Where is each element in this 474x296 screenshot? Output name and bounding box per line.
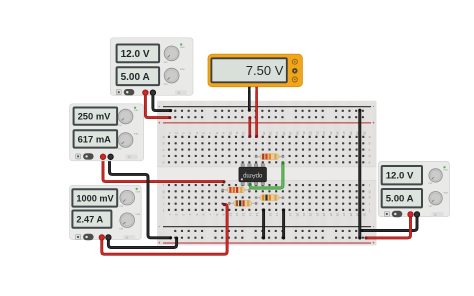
wire PS3 black to bottom rail row2 bbox=[108, 236, 178, 247]
wire PS2 black to bottom rail row2 bbox=[110, 157, 173, 239]
svg-text:12.0 V: 12.0 V bbox=[386, 171, 414, 182]
multimeter M1 (7.50 V) bbox=[208, 54, 302, 86]
power supply PS2 (250 mV 617 mA) bbox=[70, 104, 144, 161]
svg-text:15: 15 bbox=[262, 131, 266, 135]
svg-text:16: 16 bbox=[269, 213, 273, 217]
column labels bbox=[168, 131, 366, 216]
bottom positive rail line bbox=[163, 242, 371, 243]
svg-text:26: 26 bbox=[336, 131, 340, 135]
svg-text:10: 10 bbox=[228, 213, 232, 217]
svg-text:26: 26 bbox=[336, 213, 340, 217]
svg-text:max: max bbox=[443, 169, 448, 172]
breadboard bbox=[157, 101, 377, 246]
svg-text:27: 27 bbox=[342, 213, 346, 217]
wire black jumper top rail to bottom rail bbox=[358, 109, 361, 240]
svg-text:23: 23 bbox=[315, 131, 319, 135]
svg-text:min: min bbox=[164, 61, 169, 64]
svg-text:opAmp: opAmp bbox=[242, 172, 262, 179]
wire PS4 black to bottom rail row1 bbox=[360, 215, 417, 233]
svg-text:12: 12 bbox=[242, 213, 246, 217]
svg-text:j: j bbox=[162, 208, 164, 212]
svg-text:h: h bbox=[369, 196, 371, 200]
svg-text:a: a bbox=[163, 135, 165, 139]
svg-text:21: 21 bbox=[302, 213, 306, 217]
svg-text:17: 17 bbox=[275, 213, 279, 217]
terminal PS3 (1000 mV 2.47 A) negative bbox=[106, 235, 111, 240]
svg-text:max: max bbox=[134, 133, 139, 136]
svg-text:22: 22 bbox=[309, 131, 313, 135]
svg-text:13: 13 bbox=[248, 213, 252, 217]
svg-text:max: max bbox=[443, 192, 448, 195]
svg-text:19: 19 bbox=[289, 131, 293, 135]
terminal PS2 (250 mV 617 mA) positive bbox=[100, 154, 105, 159]
svg-text:25: 25 bbox=[329, 131, 333, 135]
wire multimeter red probe to a14 bbox=[255, 91, 258, 138]
svg-text:19: 19 bbox=[289, 213, 293, 217]
svg-text:g: g bbox=[369, 190, 371, 194]
svg-text:f: f bbox=[369, 183, 370, 187]
terminal PS1 (12.0 V 5.00 A) positive bbox=[143, 90, 148, 95]
svg-text:30: 30 bbox=[362, 131, 366, 135]
bottom negative rail line bbox=[163, 226, 371, 227]
svg-text:d: d bbox=[163, 154, 165, 158]
terminal PS3 (1000 mV 2.47 A) positive bbox=[99, 235, 104, 240]
svg-text:d: d bbox=[369, 154, 371, 158]
svg-text:30: 30 bbox=[362, 213, 366, 217]
wire black jumper j18 to bottom rail bbox=[282, 208, 285, 239]
svg-text:b: b bbox=[163, 141, 165, 145]
svg-text:min: min bbox=[119, 205, 124, 208]
svg-text:25: 25 bbox=[329, 213, 333, 217]
svg-text:2.47 A: 2.47 A bbox=[76, 215, 103, 225]
svg-text:5.00 A: 5.00 A bbox=[386, 194, 414, 205]
svg-text:max: max bbox=[134, 109, 139, 112]
svg-text:e: e bbox=[369, 161, 371, 165]
svg-text:20: 20 bbox=[295, 131, 299, 135]
svg-text:j: j bbox=[368, 208, 370, 212]
svg-text:27: 27 bbox=[342, 131, 346, 135]
main grid holes bbox=[168, 136, 364, 211]
resistor R2 bbox=[221, 187, 251, 193]
svg-text:5.00 A: 5.00 A bbox=[121, 72, 150, 83]
op-amp U1 bbox=[239, 164, 267, 185]
wire PS1 red to top rail row2 bbox=[145, 93, 171, 120]
resistor R3 bbox=[255, 195, 285, 201]
terminal PS2 (250 mV 617 mA) negative bbox=[108, 154, 113, 159]
svg-text:min: min bbox=[428, 182, 433, 185]
rail polarity marks bbox=[158, 121, 375, 246]
svg-text:b: b bbox=[369, 141, 371, 145]
svg-text:e: e bbox=[163, 161, 165, 165]
power supply PS1 (12.0 V 5.00 A) bbox=[110, 38, 193, 96]
svg-text:617 mA: 617 mA bbox=[78, 133, 112, 144]
resistor R1 bbox=[255, 154, 285, 160]
svg-text:12: 12 bbox=[242, 131, 246, 135]
wire green f13 to e18 bbox=[249, 161, 285, 188]
svg-text:g: g bbox=[163, 190, 165, 194]
terminal PS1 (12.0 V 5.00 A) negative bbox=[150, 90, 155, 95]
wire PS3 red to j9 bbox=[102, 203, 227, 254]
svg-text:min: min bbox=[164, 83, 169, 86]
svg-text:28: 28 bbox=[349, 213, 353, 217]
svg-text:20: 20 bbox=[295, 213, 299, 217]
wire PS1 black to top rail row1 bbox=[153, 93, 172, 113]
svg-text:min: min bbox=[118, 124, 123, 127]
multimeter black probe tip bbox=[248, 87, 251, 94]
svg-text:18: 18 bbox=[282, 131, 286, 135]
svg-text:f: f bbox=[163, 183, 164, 187]
svg-text:24: 24 bbox=[322, 131, 326, 135]
svg-text:12.0 V: 12.0 V bbox=[121, 49, 150, 60]
wire PS4 red to bottom rail row2 bbox=[364, 215, 410, 240]
svg-text:7.50 V: 7.50 V bbox=[246, 63, 284, 78]
svg-text:22: 22 bbox=[309, 213, 313, 217]
wire red jumper rail row2 to a13 bbox=[248, 116, 251, 138]
svg-text:max: max bbox=[180, 68, 185, 71]
svg-text:max: max bbox=[136, 190, 141, 193]
resistor R4 bbox=[228, 200, 258, 206]
svg-text:max: max bbox=[136, 213, 141, 216]
svg-text:10: 10 bbox=[228, 131, 232, 135]
svg-text:21: 21 bbox=[302, 131, 306, 135]
power supply PS3 (1000 mV 2.47 A) bbox=[70, 185, 142, 240]
power supply PS4 (12.0 V 5.00 A) bbox=[378, 161, 449, 217]
svg-text:min: min bbox=[118, 147, 123, 150]
top negative rail line bbox=[163, 106, 371, 107]
top positive rail line bbox=[163, 122, 371, 123]
terminal PS4 (12.0 V 5.00 A) positive bbox=[408, 212, 413, 217]
multimeter red probe tip bbox=[255, 87, 258, 94]
svg-text:min: min bbox=[428, 205, 433, 208]
row labels bbox=[162, 135, 371, 212]
wire black jumper j15 to bottom rail bbox=[262, 208, 265, 239]
wire PS2 red to f9 bbox=[103, 157, 225, 184]
svg-text:11: 11 bbox=[235, 213, 239, 216]
svg-text:17: 17 bbox=[275, 131, 279, 135]
svg-text:1000 mV: 1000 mV bbox=[76, 193, 114, 203]
svg-text:14: 14 bbox=[255, 213, 259, 217]
svg-text:24: 24 bbox=[322, 213, 326, 217]
wire multimeter black probe to top rail row1 bbox=[248, 91, 251, 112]
svg-text:max: max bbox=[180, 46, 185, 49]
rail holes bbox=[174, 110, 364, 239]
terminal PS4 (12.0 V 5.00 A) negative bbox=[414, 212, 419, 217]
svg-text:a: a bbox=[369, 135, 371, 139]
svg-text:23: 23 bbox=[315, 213, 319, 217]
svg-text:min: min bbox=[119, 228, 124, 231]
svg-text:28: 28 bbox=[349, 131, 353, 135]
svg-text:16: 16 bbox=[269, 131, 273, 135]
svg-text:11: 11 bbox=[235, 131, 239, 134]
svg-text:250 mV: 250 mV bbox=[78, 111, 112, 122]
svg-text:h: h bbox=[163, 196, 165, 200]
